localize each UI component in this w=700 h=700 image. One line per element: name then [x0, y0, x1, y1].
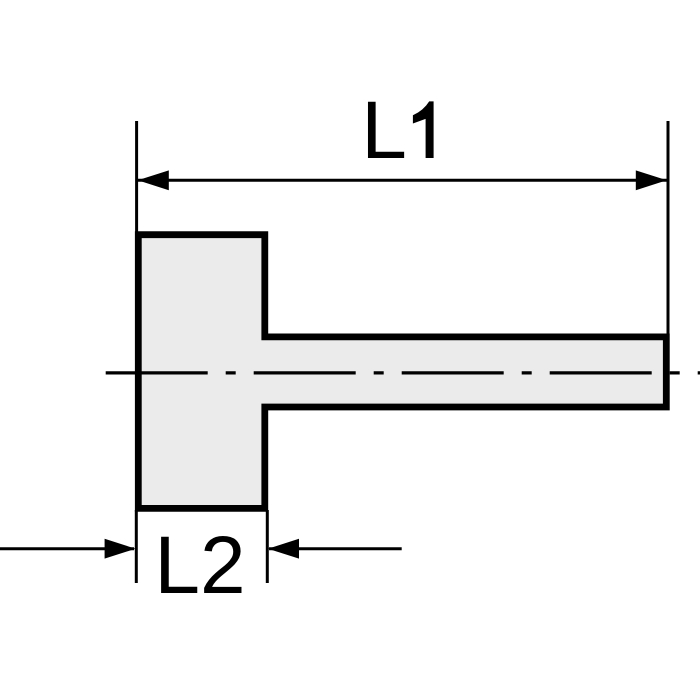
- L1 right arrowhead: [636, 170, 667, 190]
- L2 dimension line right part: [269, 547, 402, 550]
- L1 left arrowhead: [138, 170, 169, 190]
- L2 right arrowhead (pointing left): [268, 539, 299, 559]
- L1 right extension line: [667, 121, 670, 335]
- L1 dimension line: [138, 179, 667, 182]
- centerline (dash-dot): [106, 371, 700, 374]
- label L1 (digit 1 drawn as path, Arial-style without foot serif): [413, 101, 434, 158]
- L2 dimension line left part: [0, 547, 134, 550]
- part body (T-shaped fitting, gray fill, thick outline): [138, 235, 666, 509]
- L2 right extension line: [266, 510, 269, 583]
- L1 left extension line: [135, 121, 138, 246]
- L2 left arrowhead (pointing right): [105, 539, 136, 559]
- svg-text:L: L: [361, 85, 407, 176]
- svg-text:L2: L2: [154, 520, 245, 611]
- L2 left extension line: [135, 510, 138, 583]
